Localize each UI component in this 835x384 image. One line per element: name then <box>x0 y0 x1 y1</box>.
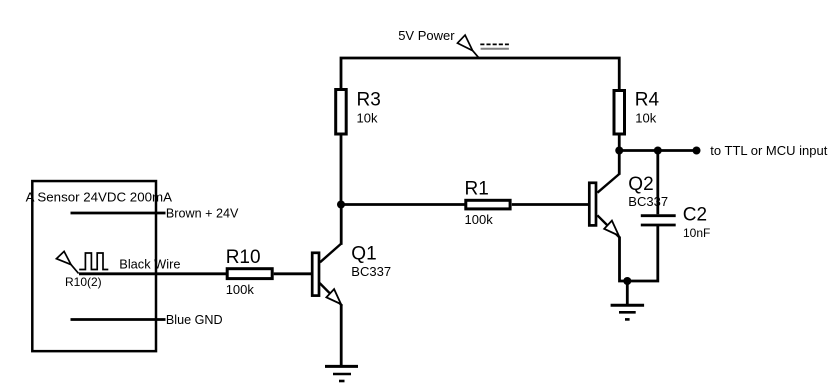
wire Q1 collector vertical <box>340 205 343 245</box>
Q2 collector diagonal <box>597 174 619 193</box>
ground symbol (Q2) <box>611 304 645 307</box>
svg-text:R3: R3 <box>357 89 381 110</box>
svg-text:R4: R4 <box>635 89 660 110</box>
DC symbol dashed line <box>480 43 509 45</box>
svg-text:Blue GND: Blue GND <box>166 313 223 327</box>
output wire <box>619 149 696 152</box>
svg-text:BC337: BC337 <box>351 264 391 279</box>
node dot (C2 tap) <box>654 147 662 155</box>
net flag R10(2) triangle <box>56 251 71 264</box>
svg-text:R10(2): R10(2) <box>65 275 102 289</box>
top power wire <box>341 58 619 90</box>
resistor R10 <box>227 269 272 279</box>
svg-text:5V Power: 5V Power <box>398 28 455 43</box>
svg-text:to TTL or MCU input: to TTL or MCU input <box>710 143 827 158</box>
wire R10 to Q1 base <box>274 272 312 275</box>
svg-text:Q1: Q1 <box>351 244 376 265</box>
wire Brown +24V <box>71 212 166 215</box>
DC symbol solid line <box>481 48 509 50</box>
node dot (R3/R1/Q1) <box>337 201 345 209</box>
Q1 emitter diagonal <box>320 283 342 305</box>
Q2 emitter arrow <box>604 221 619 236</box>
svg-text:100k: 100k <box>226 282 255 297</box>
Q2 emitter diagonal <box>597 215 619 237</box>
wire Q1 emitter vertical <box>340 304 343 366</box>
wire Black (box to R10) <box>79 272 226 275</box>
resistor R4 <box>614 91 625 135</box>
terminal dot (output) <box>693 147 701 155</box>
transistor Q2 base bar <box>589 183 596 226</box>
svg-text:BC337: BC337 <box>628 194 668 209</box>
svg-text:Black Wire: Black Wire <box>119 257 180 272</box>
node dot (R4/Q2) <box>615 147 623 155</box>
svg-text:R1: R1 <box>465 179 489 200</box>
capacitor C2 plates <box>641 216 676 225</box>
svg-text:10k: 10k <box>635 111 656 126</box>
wire R4 bottom / Q2 collector vertical <box>618 134 621 175</box>
svg-text:R10: R10 <box>226 247 261 268</box>
svg-text:10nF: 10nF <box>683 226 710 240</box>
ground stem (Q2) <box>626 281 629 305</box>
svg-text:A Sensor 24VDC 200mA: A Sensor 24VDC 200mA <box>26 189 172 204</box>
power flag 5V triangle <box>458 35 473 51</box>
wire node to R1 <box>341 203 465 206</box>
transistor Q1 base bar <box>312 253 319 296</box>
wire Q2 emitter vertical + bottom wire + C2 bottom <box>620 226 658 281</box>
svg-text:100k: 100k <box>465 212 494 227</box>
svg-text:Q2: Q2 <box>628 174 653 195</box>
Q1 collector diagonal <box>320 244 341 263</box>
node dot (emitter/ground) <box>623 277 631 285</box>
ground symbol (Q1) <box>325 365 358 368</box>
wire R3 bottom <box>340 135 343 206</box>
sensor box outline <box>32 181 156 351</box>
wire R1 to Q2 base <box>512 203 589 206</box>
Q1 emitter arrow <box>326 289 341 304</box>
resistor R1 <box>466 200 510 209</box>
resistor R3 <box>336 90 347 135</box>
pulse waveform symbol <box>79 253 108 270</box>
wire Blue GND <box>71 318 166 321</box>
svg-text:10k: 10k <box>357 111 378 126</box>
svg-text:C2: C2 <box>683 204 707 225</box>
capacitor C2 top wire <box>656 151 659 215</box>
svg-text:Brown + 24V: Brown + 24V <box>166 206 239 220</box>
